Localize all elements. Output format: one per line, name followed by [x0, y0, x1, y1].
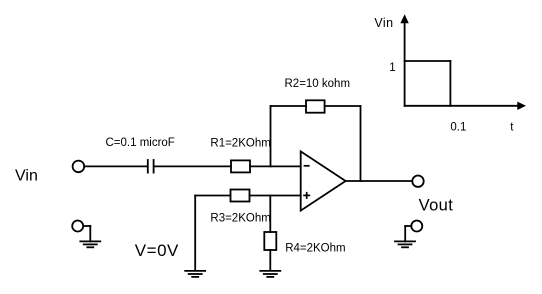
wire input to capacitor [85, 165, 147, 167]
wire V=0V node down [194, 196, 196, 271]
resistor R1 [231, 160, 250, 172]
svg-text:1: 1 [389, 62, 395, 74]
wire op-amp output [346, 180, 412, 182]
graph pulse right edge [449, 61, 451, 106]
ground below V=0V node [185, 271, 205, 277]
svg-text:V=0V: V=0V [135, 241, 179, 260]
resistor R4 [264, 232, 276, 250]
svg-text:R2=10 kohm: R2=10 kohm [285, 78, 351, 90]
wire feedback top left [271, 105, 307, 107]
resistor R3 [231, 190, 250, 202]
graph arrowhead up [400, 14, 408, 23]
wire noninverting input [195, 195, 230, 197]
wire R3 to op-amp [250, 195, 301, 197]
wire node to R4 [269, 196, 271, 233]
graph axis vertical [404, 22, 406, 106]
graph axis horizontal [405, 105, 518, 107]
wire feedback top right [325, 105, 361, 107]
ground symbol near Vin [72, 221, 100, 248]
wire feedback right vertical [360, 106, 362, 181]
op-amp U1 [301, 151, 346, 210]
graph arrowhead right [517, 102, 526, 110]
svg-text:0.1: 0.1 [450, 121, 466, 133]
svg-text:R4=2KOhm: R4=2KOhm [285, 243, 345, 255]
wire R1 to op-amp inverting input [250, 165, 301, 167]
resistor R2 [306, 100, 325, 112]
svg-text:C=0.1 microF: C=0.1 microF [106, 137, 175, 149]
wire R4 to ground [269, 250, 271, 270]
wire capacitor to R1 [154, 165, 231, 167]
op-amp minus pin label [304, 165, 310, 167]
ground below R4 [260, 271, 280, 277]
svg-text:Vout: Vout [419, 197, 454, 215]
svg-text:t: t [510, 121, 514, 133]
svg-text:R1=2KOhm: R1=2KOhm [210, 138, 270, 150]
svg-text:Vin: Vin [15, 168, 38, 185]
graph pulse top [405, 60, 451, 62]
ground symbol near Vout [395, 221, 422, 248]
terminal Vin [73, 161, 85, 173]
svg-text:R3=2KOhm: R3=2KOhm [210, 213, 270, 225]
terminal Vout [412, 176, 423, 187]
op-amp plus pin label [303, 192, 310, 199]
capacitor C [148, 160, 154, 173]
wire feedback left vertical [270, 106, 272, 166]
svg-text:Vin: Vin [374, 16, 393, 30]
